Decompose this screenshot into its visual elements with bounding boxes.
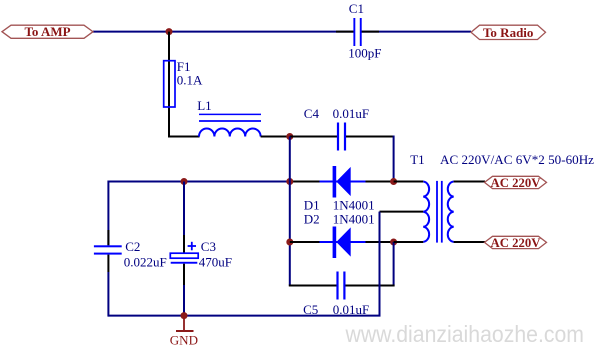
svg-text:C4: C4 [304, 106, 320, 121]
junction at F1 top on rail [166, 28, 173, 35]
pin C1 right (black) [362, 31, 380, 33]
svg-text:D1: D1 [304, 197, 320, 212]
wire D1 row left (C2/C3 top rail) [108, 181, 289, 183]
capacitor C2 [94, 245, 122, 254]
wire center tap vertical [379, 212, 381, 316]
capacitor C5 [336, 272, 345, 300]
pin C3 bottom (black) [183, 264, 185, 285]
port To AMP [2, 24, 93, 39]
capacitor C3 (polarized) [170, 242, 198, 264]
svg-text:1N4001: 1N4001 [333, 197, 375, 212]
T1 core lines [436, 181, 438, 243]
svg-text:1N4001: 1N4001 [333, 211, 375, 226]
wire vertical C4 corner down to D1 row [393, 136, 395, 182]
junction C3 top at D1 row [181, 178, 188, 185]
wire node A vertical (C4 row to C5 corner) [289, 137, 291, 286]
svg-text:GND: GND [170, 332, 198, 347]
fuse F1 [164, 61, 175, 107]
junction node A at D2 row [286, 239, 293, 246]
svg-text:AC 220V/AC 6V*2 50-60Hz: AC 220V/AC 6V*2 50-60Hz [440, 152, 594, 167]
svg-text:C2: C2 [125, 239, 140, 254]
pin C2 bottom (black) [107, 255, 109, 272]
pin T1 center tap (black) [380, 211, 424, 213]
wire D2 row (black) [290, 241, 394, 243]
junction node A at D1 row [286, 178, 293, 185]
svg-text:AC 220V: AC 220V [491, 235, 542, 250]
diode D2 [320, 227, 366, 259]
svg-text:L1: L1 [197, 98, 211, 113]
pin F1 vertical (black) [168, 32, 170, 137]
wire L1 to node A junction (black) [261, 136, 290, 138]
svg-text:470uF: 470uF [199, 255, 232, 270]
port To Radio [471, 25, 546, 40]
transformer T1 [380, 181, 486, 243]
junction D1 right at transformer top [390, 178, 397, 185]
inductor L1 [199, 114, 261, 136]
capacitor C1 [353, 18, 361, 46]
svg-text:0.1A: 0.1A [177, 72, 203, 87]
svg-text:C1: C1 [349, 1, 364, 16]
svg-text:To Radio: To Radio [483, 25, 533, 40]
wire top rail left (To AMP to C1) [93, 31, 354, 33]
svg-text:AC 220V: AC 220V [491, 175, 542, 190]
wire C2 vertical bottom (to bottom rail) [107, 272, 109, 317]
wire top rail right (C1 to To Radio) [361, 31, 472, 33]
capacitor C4 [337, 123, 346, 151]
wire vertical D2 right down to C5 corner [393, 242, 395, 286]
T1 left winding arcs [423, 182, 429, 242]
pin T1 secondary top (black) [394, 181, 424, 183]
wire C3 vertical top (D1 row to C3 plate) [183, 182, 185, 254]
pin C1 left (black) [336, 31, 354, 33]
wire bottom rail [108, 315, 380, 317]
port AC 220V bottom [485, 235, 547, 250]
wire D1 row right (black) [290, 181, 394, 183]
junction D2 right at transformer bottom [390, 239, 397, 246]
junction GND on bottom rail [181, 312, 188, 319]
svg-text:C3: C3 [201, 239, 216, 254]
pin T1 primary top (black) [454, 181, 485, 183]
wire C3 vertical bottom (to GND junction) [183, 285, 185, 316]
svg-text:D2: D2 [304, 211, 320, 226]
wire C4 right pin to corner (black) [346, 136, 394, 138]
wire F1 bottom corner to L1 (black) [168, 136, 200, 138]
pin C2 top (black) [107, 230, 109, 245]
wire C4 left pin (black) [290, 136, 337, 138]
diode D1 [320, 166, 366, 198]
svg-text:To AMP: To AMP [24, 24, 70, 39]
svg-text:0.01uF: 0.01uF [333, 106, 369, 121]
ground GND symbol [170, 316, 198, 348]
T1 right winding arcs [448, 182, 454, 242]
svg-text:T1: T1 [410, 152, 424, 167]
pin T1 secondary bottom (black) [394, 241, 424, 243]
pin C3 top (black) [183, 235, 185, 253]
pin T1 primary bottom (black) [454, 241, 485, 243]
svg-text:0.022uF: 0.022uF [124, 255, 167, 270]
wire C5 left pin (black) [289, 285, 337, 287]
svg-text:www.dianziaihaozhe.com: www.dianziaihaozhe.com [345, 321, 584, 347]
svg-text:100pF: 100pF [348, 46, 381, 61]
port AC 220V top [485, 175, 547, 190]
wire C5 right pin (black) [346, 285, 395, 287]
junction node A top (L1/C4) [286, 133, 293, 140]
wire C2 vertical top (D1 row to C2 plate) [107, 181, 109, 246]
